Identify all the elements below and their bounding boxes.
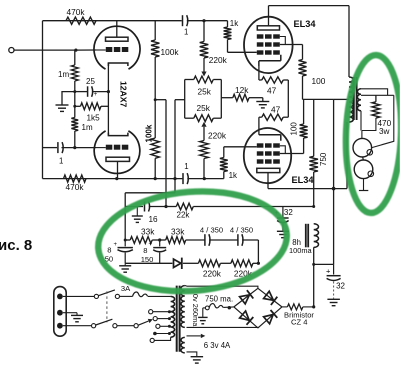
T1 tap 326 [156, 324, 160, 328]
wire pin1 to switch [63, 295, 94, 297]
triode V1b grid lead [96, 147, 106, 149]
node fuse to bridge [228, 306, 231, 309]
wire bias left drop [124, 193, 126, 240]
switch gang dashed [106, 291, 108, 322]
wire top feedback line [43, 20, 182, 22]
wire B+ down to brimistor [313, 247, 315, 307]
triode V1a grid [106, 47, 113, 52]
pentode V2 grid3 row [257, 34, 264, 38]
capacitor 1 upper coupling [182, 15, 184, 26]
wire 100k lower to rail [154, 158, 156, 178]
pentode V3 envelope [244, 128, 291, 183]
switch S1a contact2 [115, 294, 119, 298]
wire plate drop upper triode [116, 21, 118, 38]
pentode V3 plate [257, 168, 280, 172]
resistor 220k fourth [231, 260, 253, 267]
transformer T1 primary [171, 296, 175, 337]
triode V1a cathode [108, 63, 128, 66]
transformer T2 core [353, 77, 355, 120]
node 175 on rail [173, 177, 176, 180]
potentiometer 25k lower [185, 117, 194, 119]
fuse 750ma holder [203, 307, 206, 309]
wire tap to bias rail [155, 99, 166, 101]
wire fuse to bridge [223, 306, 234, 309]
ground 16 cap [136, 207, 138, 216]
bridge side TL [234, 288, 258, 307]
green ellipse output section [343, 54, 400, 214]
triode V1b plate [106, 157, 130, 161]
selector blade arrow [138, 321, 148, 325]
green ellipse bias section [94, 185, 290, 299]
wire HV bottom to bridge [187, 326, 258, 329]
wire 22k to choke [193, 206, 313, 208]
capacitor 1 lower coupling [182, 173, 184, 184]
input terminal [9, 48, 14, 53]
wire secondary tap [361, 94, 394, 96]
resistor 100 upper screen [299, 60, 307, 76]
jack J2 [354, 160, 373, 179]
triode V1b grid [106, 145, 113, 150]
pentode V3 g2 lead [280, 153, 304, 155]
pentode V2 g2 lead [280, 44, 303, 46]
wire 1k lower to EL34 g1 [223, 147, 225, 158]
node plate wire crossing [332, 187, 336, 191]
wire to 1k lower [204, 178, 224, 180]
pentode V3 g3 tie [280, 146, 286, 154]
triode V1a plate [106, 37, 129, 41]
node after coupling cap [202, 19, 205, 22]
wire jack link [362, 157, 365, 160]
transformer T2 secondary [357, 89, 361, 111]
transformer T1 heater [181, 337, 185, 353]
T1 tap 318 [153, 317, 157, 321]
wire to 1k upper [204, 20, 228, 22]
T1 tap 333 [153, 332, 157, 336]
diode D2 top-right [264, 291, 274, 300]
wire fuse to primary [148, 295, 171, 297]
resistor 47 lower cathode [262, 114, 283, 120]
wire 33k junction [152, 239, 166, 241]
resistor Brimistor CZ4 [287, 304, 302, 310]
node bias bus left [124, 239, 127, 242]
ground heater [191, 356, 204, 358]
wire to fuse 3A [120, 295, 133, 297]
pentode V2 grid1 row [257, 50, 264, 54]
bridge side BL [234, 307, 258, 328]
wire pot box jog [175, 99, 185, 101]
ground 12AX7 cathode [56, 104, 69, 106]
wire OPT center tap [334, 98, 349, 100]
wire bias top link [125, 192, 175, 194]
node lower grid [73, 146, 76, 149]
mains pin 3 [57, 323, 63, 329]
pentode V3 cathode lead [258, 117, 260, 135]
diode D4 bottom-right [264, 315, 274, 324]
triode V1b cathode [108, 133, 128, 136]
pot box left side [184, 80, 186, 119]
potentiometer 25k upper [185, 79, 194, 81]
fuse 3A [133, 292, 148, 297]
resistor 470k lower [64, 175, 86, 182]
transformer T2 primary [349, 77, 353, 122]
capacitor 32 first [282, 207, 284, 218]
resistor 1m input grid leak [74, 50, 76, 65]
capacitor 32 second [333, 264, 335, 274]
wire between 4/350 [209, 239, 238, 241]
jack J1 [353, 138, 372, 157]
switch S1b contact [92, 324, 96, 328]
wire secondary bottom to jack [360, 111, 362, 131]
wire 470 to jack [362, 118, 376, 131]
mains connector [54, 287, 66, 337]
wire arrow pot2 wiper [203, 127, 205, 141]
pentode V2 grid2 row [257, 42, 264, 46]
pentode V3 cathode [259, 135, 281, 141]
pentode V2 plate lead [268, 6, 270, 26]
selector contact [134, 324, 138, 328]
wire 1k to EL34 g1 [227, 40, 229, 53]
wire diode to 220k [183, 262, 199, 264]
wire 100k chain [154, 57, 156, 138]
choke 8h core [305, 224, 307, 248]
wire HV top to bridge [185, 285, 187, 287]
wire V3 plate to OPT [268, 188, 347, 190]
wire 47s junction [283, 79, 288, 81]
pot box right side [220, 80, 222, 119]
switch S1b contact2 [113, 324, 117, 328]
pentode V3 grid1 row [257, 143, 264, 147]
resistor 33k second [166, 237, 186, 244]
node 220k bottom on rail [203, 177, 206, 180]
switch S1b blade [96, 319, 113, 325]
wire pin3 to switch2 [63, 325, 92, 327]
resistor 470 3w [375, 95, 377, 102]
wire bias bottom bus [125, 262, 172, 264]
node 100k on rail [154, 177, 157, 180]
wire 16cap to node [149, 206, 166, 208]
resistor 47 upper cathode [258, 61, 260, 80]
T1 primary bottom terminal [150, 338, 154, 342]
resistor 750 [313, 99, 315, 156]
pentode V2 g3 tie [280, 37, 286, 45]
triode V1b plate lead [117, 161, 119, 178]
triode V1a envelope [94, 26, 140, 69]
T1 primary bottom lead [154, 337, 170, 340]
capacitor 8/50 [124, 240, 126, 246]
T1 tap 311 [149, 310, 153, 314]
wire bridge to brimistor [282, 306, 288, 308]
switch S1a contact [94, 294, 98, 298]
transformer T1 HV secondary [181, 286, 185, 328]
resistor 1k upper grid stopper [224, 27, 232, 39]
capacitor 25 cathode bypass [75, 91, 88, 93]
wire heater live arrow [187, 335, 201, 337]
wire screens bus [303, 98, 334, 100]
wire screen to bus [302, 76, 304, 99]
wire node to 12AX7 upper grid [76, 49, 96, 51]
ground mains [71, 314, 83, 316]
resistor 33k first [130, 237, 152, 244]
choke 8h winding [314, 224, 319, 248]
wire left rail [42, 21, 44, 179]
wire choke bottom junction [314, 263, 334, 265]
pentode V2 cathode [259, 55, 281, 61]
wire y147 from rail [43, 147, 58, 149]
wire pot to 12k [221, 97, 233, 99]
wire node down 1k5 [74, 92, 76, 107]
wire 33k2 to cap [186, 239, 205, 241]
capacitor 4/350 second [237, 234, 239, 246]
wire brimistor to B+ [303, 306, 314, 308]
wire B+ center tap drop [333, 99, 335, 264]
capacitor 1 lower left [57, 142, 59, 153]
pentode V2 plate [257, 26, 279, 30]
pentode V3 grid3 row [257, 159, 264, 163]
pentode V3 grid2 row [257, 151, 264, 155]
diode bias rectifier [174, 259, 181, 267]
wire between 220k [220, 262, 231, 264]
wire HT fuse ground [202, 308, 204, 317]
wire input to grid node [14, 49, 76, 51]
wire 4/350 to corner [242, 239, 258, 241]
resistor 22k [166, 206, 176, 208]
diode D3 bottom-left [240, 311, 250, 320]
ground 32 first [282, 224, 284, 231]
wire shared cathode line [107, 63, 109, 136]
node between 33k [158, 238, 161, 241]
node choke bottom [312, 263, 315, 266]
wire node left to ground [62, 92, 75, 105]
wire switch2 to selector [117, 325, 134, 327]
wire pin2 to ground [63, 312, 77, 314]
wire arrow 220k to pot1 [203, 58, 205, 72]
node bias right corner [257, 262, 260, 265]
node plate lower triode on rail [115, 177, 118, 180]
ground HT fuse [198, 316, 208, 318]
resistor 1k lower grid stopper [220, 158, 228, 172]
wire secondary top [361, 89, 388, 96]
resistor 220k third [198, 260, 220, 267]
wire 100k tap drop [165, 100, 167, 207]
bridge side BR [258, 307, 282, 328]
ground bias reference [256, 101, 269, 103]
wire 16cap line [125, 206, 143, 208]
switch S1a blade [98, 290, 115, 296]
wire lower screen to bus [303, 99, 305, 124]
mains pin 1 [57, 294, 63, 300]
ground bias left [124, 263, 126, 265]
resistor 100k upper [151, 40, 159, 57]
bridge side TR [258, 288, 282, 307]
pentode V2 envelope [244, 17, 293, 73]
resistor 220k lower [200, 141, 209, 159]
node grid junction [74, 49, 77, 52]
node choke top [312, 205, 315, 208]
fuse 750ma [209, 304, 223, 308]
resistor 1m lower grid leak [74, 106, 76, 117]
wire rail drop 175 [174, 100, 176, 193]
wire 1m to cathode node [74, 81, 76, 92]
triode V1b envelope [94, 131, 140, 174]
resistor 1k5 cathode [81, 103, 101, 110]
resistor 12k [233, 94, 249, 101]
wire 12k to ground [249, 97, 263, 99]
mains pin 2 [57, 310, 63, 316]
capacitor 8/150 [159, 240, 161, 246]
ground 32 second [333, 282, 335, 299]
wire 220k to corner [253, 262, 259, 264]
node brimistor B+ [312, 305, 315, 308]
pentode V2 cathode lead [258, 61, 260, 66]
wire right edge down [372, 95, 394, 147]
transformer T1 core [176, 286, 178, 352]
pentode V3 plate lead [267, 173, 269, 189]
resistor 220k upper [203, 21, 205, 42]
resistor 470k upper [66, 17, 96, 24]
node cathode bypass [107, 90, 110, 93]
capacitor 16 [144, 202, 146, 212]
wire bias bus left [125, 239, 130, 241]
wire top rail to OPT [269, 5, 350, 7]
node 166 on 22k line [164, 205, 167, 208]
wire bottom rail [43, 178, 183, 180]
wire jack bottom lead [363, 179, 365, 191]
triode V1a grid lead [96, 49, 106, 51]
capacitor 4/350 first [204, 234, 206, 246]
resistor 100 lower screen [300, 124, 308, 138]
wire heater return [187, 352, 197, 356]
resistor 100k lower [151, 138, 159, 158]
diode D1 top-left [240, 295, 250, 304]
